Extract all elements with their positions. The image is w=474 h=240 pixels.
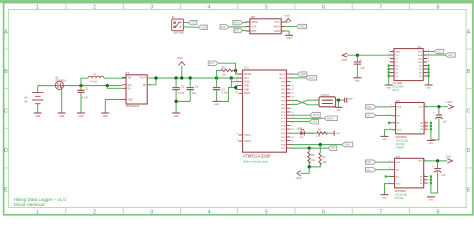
svg-text:C: C [466,109,470,115]
net flag RST [208,61,218,65]
frame column numbers top [36,5,440,11]
label ATMEGA note [244,159,269,163]
svg-text:VDD: VDD [419,107,424,109]
svg-text:RESET: RESET [244,74,252,76]
svg-text:4: 4 [208,5,211,11]
wire ISP MISO [285,26,296,28]
svg-text:VOUT: VOUT [139,78,146,80]
svg-text:NC: NC [419,65,423,67]
ground C4 [213,101,221,106]
node C3 junction [189,76,192,79]
net flag ISP RST [234,28,243,32]
svg-text:B: B [4,69,8,75]
svg-text:AVCC: AVCC [244,81,251,84]
label IC1 pin numbers left [236,73,239,142]
connector ISP header [246,19,285,34]
svg-text:David Harwood: David Harwood [14,202,45,207]
svg-text:IRQ: IRQ [418,58,422,60]
frame row letters right [466,29,470,193]
node EN junction [106,84,109,87]
node C2 C3 common junction [175,100,178,103]
supply +3V3 RTC [341,53,348,62]
transistor Q1 [55,81,63,89]
wire RTC SDA [427,54,445,56]
label IC5 [396,99,401,103]
ground RTC left [385,85,393,90]
svg-text:8: 8 [437,210,440,216]
op-amp IC4 RTC ISL1208 [390,49,427,81]
svg-text:SDA: SDA [397,106,402,109]
svg-text:IC4: IC4 [417,45,422,49]
node C4 junction [215,76,218,79]
label CTS-07 [321,94,330,97]
svg-text:1uF: 1uF [443,122,448,124]
wire sensor1 VDD [424,106,448,108]
svg-text:GND: GND [244,89,249,91]
svg-text:3: 3 [150,210,153,216]
wire C1 top [80,86,82,90]
svg-text:GND: GND [336,110,341,112]
svg-text:NC: NC [395,69,399,71]
svg-text:VCC: VCC [395,55,400,57]
svg-text:GND: GND [428,200,433,202]
svg-text:1uF: 1uF [192,92,197,95]
net flag S1 GND [198,25,207,29]
ground sensor1 [381,136,389,141]
svg-text:7: 7 [379,210,382,216]
svg-text:FB: FB [143,85,146,87]
svg-text:1uF: 1uF [441,175,446,177]
svg-text:GND: GND [287,38,292,40]
label C2 [178,85,185,95]
svg-text:GND: GND [201,26,207,29]
node rail junction 3V3 [180,76,183,79]
svg-text:NC: NC [395,65,399,67]
svg-text:RST: RST [209,62,214,65]
net flag SCK [220,25,229,29]
net flag MISO [296,24,306,28]
svg-text:LED1: LED1 [297,128,303,130]
svg-text:E: E [4,188,8,194]
svg-text:A: A [467,29,471,35]
capacitor C8 [431,161,441,193]
wire sensor2 SCL [376,169,391,171]
svg-text:18pF: 18pF [348,99,354,101]
svg-text:IC6: IC6 [396,155,401,159]
wire battery rail [38,85,122,87]
ground crystal [335,107,343,112]
crystal Y1 [319,97,336,107]
svg-text:EN: EN [128,88,132,90]
label IC1 [244,66,249,70]
svg-text:GND: GND [382,139,387,141]
resistor R4 [309,145,321,167]
wire RTC VCC [347,54,394,56]
svg-text:GND: GND [128,100,133,102]
label C5 [359,60,365,70]
svg-text:TPS61222: TPS61222 [125,104,140,108]
svg-text:NC: NC [419,72,423,74]
svg-text:2: 2 [93,5,96,11]
wire sensor1 alert stub [388,122,392,124]
wire SDA row [291,144,342,146]
svg-text:B: B [467,69,471,75]
svg-text:+3V3: +3V3 [295,177,302,180]
node crystal junction [337,99,340,102]
label IC6 pin numbers [389,159,426,184]
svg-text:MOSI: MOSI [313,114,319,117]
wire FB tap [147,78,156,85]
node sensor1 cap junction [437,105,440,108]
net flag SPI MISO [324,116,337,121]
capacitor C4 [213,78,220,101]
svg-text:6: 6 [322,210,325,216]
label RTC notes [393,85,404,91]
frame inner border [9,10,467,208]
wire Q1 gate to ground [61,89,63,113]
net flag sensor1 SDA [366,105,376,109]
LED D1 [300,129,304,136]
wire sensor2 alert stub [385,175,391,177]
wire battery top to rail [37,86,39,93]
node pullup common junction [308,165,311,168]
svg-text:5: 5 [265,210,268,216]
node VCC rail junction [230,76,233,79]
wire LED to R2 [305,132,314,134]
svg-text:MISO: MISO [300,27,306,29]
svg-text:ISP: ISP [251,15,255,19]
node R3 junction SCL [308,147,311,150]
ground C2 C3 [172,113,180,118]
svg-text:AA: AA [24,100,28,103]
svg-text:1uF: 1uF [360,68,365,70]
wire ISP SCK [229,26,246,28]
svg-text:+3V3: +3V3 [176,56,183,60]
svg-text:[RTC]: [RTC] [393,89,400,92]
net flag S1 RST [188,20,197,24]
svg-text:VDD: VDD [418,161,423,163]
label IC4 pin numbers [388,50,430,63]
svg-text:0.1uF: 0.1uF [222,92,229,95]
wire S1 pin1 [183,22,188,24]
op-amp IC1 ATMEGA328P [239,70,295,152]
svg-text:MISO: MISO [327,117,333,120]
svg-text:RST: RST [191,22,196,25]
svg-text:GND: GND [103,116,108,118]
svg-text:MOSI: MOSI [252,21,258,24]
label R3 [311,155,316,162]
capacitor C7 load [345,98,354,103]
battery BT1 [32,93,44,104]
svg-text:[TEMP]: [TEMP] [396,146,405,149]
wire inductor branch [81,78,126,85]
svg-text:AO3401A: AO3401A [55,79,66,82]
wire ISP RST [243,30,246,33]
svg-text:GND: GND [417,62,422,64]
label R1 [222,67,227,77]
label sensor2 notes [395,193,408,200]
svg-text:ADC7: ADC7 [279,77,286,80]
net flag SPI MOSI [310,113,320,118]
wire battery bottom to ground [37,104,39,113]
op-amp IC6 MCP9808 [391,158,428,188]
wire crystal junction to ground [338,100,340,107]
wire TPS GND pin to ground [105,100,122,113]
svg-text:SDA: SDA [418,54,423,57]
frame column numbers bottom [36,210,440,216]
label R4 [323,157,328,164]
svg-text:GND: GND [397,130,402,132]
wire SPI MOSI [291,114,310,116]
supply +3V3 sensor2 [445,155,453,163]
ground Q1 gate [58,113,66,118]
svg-text:GND: GND [355,81,360,83]
svg-text:SDA: SDA [366,161,371,164]
wire LED row [291,132,301,134]
svg-text:C: C [4,109,8,115]
wire GND run to C4 ground [217,88,232,102]
node sensor2 cap junction [436,159,439,162]
capacitor C3 [176,78,194,101]
capacitor C2 [172,78,179,113]
label MCP9808 sensor2 [395,190,407,193]
node RTC cap junction [356,54,359,57]
svg-text:4.7uH: 4.7uH [90,81,97,84]
svg-text:GND: GND [428,143,433,145]
net flag ADC6 [291,72,307,76]
label ISL1208 [393,82,403,85]
wire sensor1 address tie [430,122,432,140]
net flag sensor2 SDA [366,160,376,164]
svg-text:GND: GND [335,133,340,135]
net flag RTC SCL [434,49,444,53]
svg-text:SDA: SDA [396,161,401,164]
svg-text:+3V3: +3V3 [284,15,291,18]
wire XTAL1 crossover [291,100,320,104]
svg-text:3: 3 [150,5,153,11]
resistor R2 [305,132,334,134]
svg-text:GND: GND [35,116,40,118]
svg-text:SCK: SCK [221,27,226,29]
svg-text:AREF: AREF [244,92,251,95]
wire sensor1 SCL [376,114,392,116]
svg-text:SCL: SCL [437,52,442,54]
label R2 [316,128,322,137]
label C4 [222,88,229,94]
label C6 [433,113,447,124]
svg-text:XTAL1: XTAL1 [244,134,252,137]
svg-text:GND: GND [78,116,83,118]
op-amp IC3 TPS61222 boost converter [122,75,151,104]
wire sensor2 address tie [430,175,432,193]
svg-text:SDA: SDA [345,144,350,147]
svg-text:SDA: SDA [281,144,286,147]
svg-text:4.7uF: 4.7uF [82,96,89,99]
net flag ADC7 [291,76,317,80]
supply +3V3 sensor1 [446,101,454,109]
capacitor C6 [431,107,443,140]
wire sensor2 VDD [424,160,447,162]
svg-text:SDA: SDA [366,106,371,109]
svg-text:B3F-1000: B3F-1000 [174,33,185,35]
wire 3V3 output rail [147,77,242,79]
wire XTAL2 crossover [291,100,320,104]
wire RTC NC left tie [388,64,390,84]
svg-text:ADC7: ADC7 [309,77,316,80]
svg-text:GND: GND [396,183,401,185]
label IC4 [417,45,422,49]
svg-text:SDA: SDA [448,54,453,57]
svg-text:RST: RST [235,31,240,33]
ground sensor1 address [427,140,435,145]
ground C1 [77,113,85,118]
ground LED sideways [334,131,340,136]
svg-text:4: 4 [208,210,211,216]
svg-text:A: A [4,29,8,35]
wire sensor2 SDA [376,161,391,163]
label C3 [192,85,199,95]
svg-text:6: 6 [322,5,325,11]
svg-text:1: 1 [36,5,39,11]
svg-text:NC: NC [419,69,423,71]
supply +3V3 arrow rail [176,56,185,78]
svg-text:SCL: SCL [331,147,336,150]
svg-text:GND: GND [214,104,219,106]
pushbutton S1 [172,19,184,31]
svg-text:MOSI: MOSI [234,23,240,25]
capacitor C1 [77,90,84,92]
svg-text:ATMEGA328P: ATMEGA328P [242,154,271,159]
label L1 [90,73,97,84]
svg-text:VCC: VCC [244,78,249,80]
svg-text:GND: GND [59,116,64,118]
label IC3 [125,71,140,108]
svg-text:2: 2 [93,210,96,216]
wire sensor1 SDA [376,106,392,108]
ground C5 [353,78,361,83]
ground ISP [285,35,293,40]
svg-text:NC: NC [395,72,399,74]
wire SCL row [291,147,328,149]
wire S1 pin2 [183,26,198,28]
label C1 [82,88,89,100]
label Q1 [55,77,66,83]
svg-text:1: 1 [36,210,39,216]
label S1 [172,17,185,34]
label sensor1 notes [396,139,409,149]
ground sensor2 address [427,197,435,202]
wire EN [107,86,122,89]
svg-text:A0=(19): A0=(19) [395,197,404,200]
net flag SPI SCK [309,119,318,124]
svg-text:MISO: MISO [273,26,279,29]
svg-text:SCK: SCK [312,121,317,124]
svg-text:GND: GND [244,86,249,88]
capacitor C5 [354,55,361,77]
wire AVCC tie [231,78,238,88]
title block text [14,197,67,207]
svg-text:GND: GND [274,30,280,33]
node R4 junction SDA [319,143,322,146]
frame top band [0,0,474,3]
svg-text:VBAT: VBAT [300,73,306,76]
resistor R3 [308,148,311,167]
svg-text:8MHz internal clock: 8MHz internal clock [244,159,269,163]
node C2 junction [175,76,178,79]
svg-text:IC3: IC3 [125,71,130,75]
svg-text:NC: NC [419,76,423,78]
wire RST net [218,63,242,74]
wire SPI MISO [291,117,325,119]
svg-text:E: E [467,188,471,194]
svg-text:XTAL2: XTAL2 [244,140,252,143]
ground RTC right [425,85,433,90]
svg-text:+3V3: +3V3 [445,155,452,158]
wire C1 bottom to ground [80,92,82,112]
net flag SCL [328,146,337,150]
label ISP [251,15,255,19]
svg-text:VCC: VCC [275,21,280,24]
resistor R1 reset pullup [217,69,236,78]
label IC6 [396,155,401,159]
ground TPS [101,113,109,118]
inductor L1 [88,76,104,78]
svg-text:+3V3: +3V3 [446,101,453,104]
wire RTC NC right tie [428,64,430,84]
svg-text:CTS-07: CTS-07 [321,94,330,97]
label ATMEGA328P [242,154,271,159]
net flag SDA [342,142,353,147]
svg-text:5: 5 [265,5,268,11]
supply +3V3 ISP [284,15,291,22]
svg-text:1.5k: 1.5k [316,134,321,137]
node VIN junction C1 [79,84,82,87]
svg-text:IC5: IC5 [396,99,401,103]
svg-text:SCL: SCL [366,170,371,172]
svg-text:ADC6: ADC6 [279,73,286,76]
wire crystal out [336,99,345,101]
supply +3V3 pullups [295,167,309,180]
svg-text:VBAT: VBAT [395,50,401,53]
label LED1 [297,128,304,139]
svg-text:SCL: SCL [366,116,371,118]
svg-text:GND: GND [386,88,391,90]
svg-text:8: 8 [437,5,440,11]
battery labels AA [24,97,28,104]
svg-text:GND: GND [382,198,387,200]
svg-text:GND: GND [174,116,179,118]
net flag sensor1 SCL [366,113,376,117]
svg-text:SCK: SCK [252,26,257,29]
wire sensor2 GND [385,184,395,195]
net flag MOSI [233,20,243,24]
wire sensor1 GND [385,130,396,136]
ground battery [34,113,42,118]
svg-text:NC: NC [395,76,399,78]
ground sensor2 [381,195,389,200]
net flag sensor2 SCL [366,168,376,172]
wire ISP GND [285,31,289,35]
label MCP9808 sensor1 [396,136,408,139]
svg-text:+3V3: +3V3 [341,59,348,62]
label C8 [432,166,446,177]
svg-text:VIN: VIN [128,85,132,87]
node R1 junction [234,69,237,72]
wire GND pins tie [231,86,238,90]
svg-text:4.7uF: 4.7uF [178,92,185,95]
svg-text:D: D [4,148,8,154]
frame row letters left [4,29,8,193]
